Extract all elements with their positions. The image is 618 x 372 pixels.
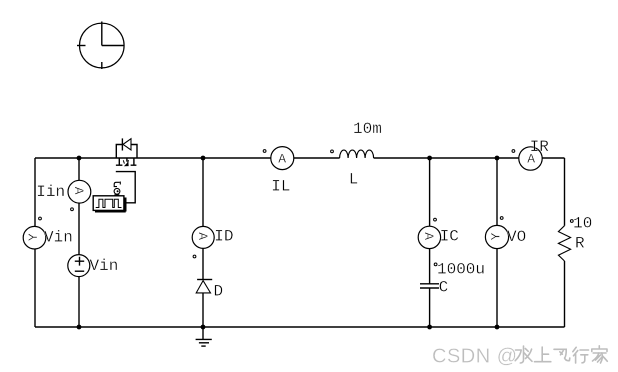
svg-text:10m: 10m <box>353 120 382 138</box>
svg-text:ID: ID <box>214 228 233 246</box>
wire capacitor branch <box>429 158 431 327</box>
svg-text:Y: Y <box>489 232 504 240</box>
wire bottom rail <box>35 326 565 328</box>
svg-text:Iin: Iin <box>36 183 65 201</box>
svg-text:R: R <box>575 234 585 252</box>
wire VO branch <box>496 158 498 327</box>
svg-text:Vin: Vin <box>90 257 119 275</box>
svg-text:A: A <box>421 232 436 240</box>
svg-text:CSDN @: CSDN @ <box>432 346 518 368</box>
家 <box>592 346 608 363</box>
node junction top VO branch <box>495 156 500 161</box>
node marker at 10 <box>570 220 573 223</box>
svg-text:D: D <box>214 283 224 301</box>
node junction bottom source branch <box>77 325 82 330</box>
wire right rail <box>564 158 566 327</box>
current sensor Iin <box>68 180 91 203</box>
ammeter IL <box>271 147 294 170</box>
svg-text:IC: IC <box>440 228 459 246</box>
行 <box>573 347 589 363</box>
clock symbol <box>77 22 125 70</box>
上 <box>535 347 551 362</box>
current sensor IC <box>418 226 440 248</box>
watermark CSDN <box>432 346 518 368</box>
node marker below Iin <box>71 208 74 211</box>
飞 <box>554 349 570 360</box>
svg-text:1000u: 1000u <box>437 261 485 279</box>
node marker left of IL <box>263 150 266 153</box>
watermark CJK 水上飞行家 <box>515 346 607 363</box>
voltage source Vin <box>68 255 90 277</box>
resistor R <box>558 226 570 261</box>
node junction top diode branch <box>201 156 206 161</box>
svg-text:C: C <box>439 279 449 297</box>
wire gate connection <box>116 172 135 203</box>
svg-text:A: A <box>278 151 286 166</box>
wire second rail (source branch) <box>78 158 80 327</box>
node marker left of IR <box>512 150 515 153</box>
ground <box>196 327 212 346</box>
capacitor C <box>420 284 439 288</box>
gating block label G <box>114 182 120 195</box>
ammeter IR <box>519 147 542 170</box>
node junction bottom ground <box>201 325 206 330</box>
node marker below ID <box>193 255 196 258</box>
node marker left rail <box>39 217 42 220</box>
svg-text:Y: Y <box>26 233 41 241</box>
diode D <box>196 280 212 293</box>
node marker above VO <box>500 217 503 220</box>
wire top rail <box>35 157 271 159</box>
wire left rail <box>34 158 36 327</box>
svg-text:A: A <box>71 187 86 195</box>
svg-text:L: L <box>349 171 359 189</box>
wire diode branch <box>202 158 204 327</box>
node marker at 1000u <box>434 263 437 266</box>
svg-text:A: A <box>195 232 210 240</box>
svg-text:VO: VO <box>507 228 526 246</box>
voltmeter Vin <box>23 226 46 249</box>
node junction top capacitor branch <box>427 156 432 161</box>
transistor Q1 MOSFET switch <box>116 138 137 166</box>
svg-text:IL: IL <box>271 178 290 196</box>
node junction bottom VO branch <box>495 325 500 330</box>
wire top rail right of IR ammeter <box>542 157 564 159</box>
wire top rail right of IL ammeter <box>294 157 340 159</box>
node marker above IC <box>434 218 437 221</box>
node marker left of inductor <box>331 150 334 153</box>
node junction top source branch <box>77 156 82 161</box>
水 <box>515 346 532 363</box>
inductor L <box>340 150 374 158</box>
svg-text:Vin: Vin <box>44 229 73 247</box>
svg-text:10: 10 <box>573 215 592 233</box>
svg-text:IR: IR <box>530 138 550 156</box>
node junction bottom capacitor branch <box>427 325 432 330</box>
current sensor ID <box>192 226 214 248</box>
voltmeter VO <box>485 225 508 248</box>
wire top rail right of inductor <box>374 157 519 159</box>
gating block G <box>93 196 126 212</box>
